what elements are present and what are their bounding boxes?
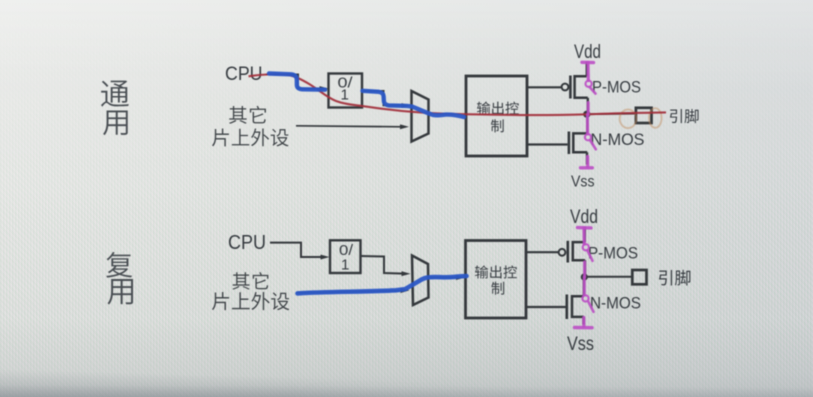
magenta P-MOS switch annotation (bottom): [583, 244, 589, 250]
P-MOS gate bubble (top): [562, 84, 569, 91]
magenta drain stroke (top): [587, 103, 590, 115]
svg-text:1: 1: [341, 87, 349, 104]
Vdd lead (bottom): [584, 227, 586, 243]
wire: box to N-MOS gate (bottom): [526, 306, 566, 308]
magenta Vss annotation stroke (top): [586, 157, 589, 167]
svg-text:Vss: Vss: [571, 174, 595, 191]
magenta Vdd annotation stroke (bottom): [578, 226, 592, 230]
P-MOS drain wire (top): [587, 98, 589, 114]
wire: node to N-MOS (top): [586, 114, 588, 133]
svg-text:N-MOS: N-MOS: [590, 294, 641, 313]
register bit box 0/1 (top): [329, 74, 363, 108]
svg-text:Vss: Vss: [567, 334, 594, 355]
wire: CPU to 0/1 box (top): [266, 75, 323, 89]
label 复用 (bottom-left row header): [106, 252, 132, 278]
wire: node to pin (top): [587, 113, 636, 116]
P-MOS gate bubble (bottom): [559, 249, 566, 256]
wire: 0/1 box to mux (top): [362, 91, 405, 105]
label 输出控 (top): [477, 102, 519, 115]
wire: box to P-MOS gate (top): [527, 86, 562, 88]
wire: node to N-MOS (bottom): [583, 277, 585, 296]
label 片上外设 (top): [212, 128, 288, 146]
P-MOS drain wire (bottom): [584, 260, 586, 276]
transistor P-MOS U3 (bottom): [566, 241, 569, 263]
Vdd lead (top): [586, 62, 588, 77]
svg-text:1: 1: [341, 257, 349, 274]
wire: CPU to 0/1 box (bottom): [270, 243, 324, 257]
output control box 输出控制 (top): [466, 76, 527, 156]
svg-text:Vdd: Vdd: [574, 42, 601, 63]
magenta N-MOS switch annotation (bottom): [582, 295, 588, 301]
label 片上外设 (bottom): [212, 292, 289, 310]
register bit box 0/1 (bottom): [330, 240, 361, 273]
magenta drain stroke (bottom): [583, 262, 586, 277]
label 通用 (top-left row header): [101, 81, 129, 107]
magenta Vdd annotation stroke (top): [582, 61, 594, 65]
wire: 片上外设 to mux (bottom): [297, 291, 403, 293]
label 引脚 (bottom): [659, 270, 690, 286]
pin square (bottom): [632, 270, 646, 284]
blue marker trace: mux segment (top): [363, 91, 465, 117]
blue marker trace: CPU wire segment (top): [269, 74, 325, 90]
transistor P-MOS U1 (top): [569, 76, 572, 99]
transistor N-MOS U4 (bottom): [565, 295, 568, 320]
svg-text:P-MOS: P-MOS: [592, 78, 641, 97]
label 其它 (top): [229, 106, 266, 124]
pin highlight circles (top): [620, 110, 637, 129]
mux trapezoid (top): [412, 91, 429, 142]
pin square (top): [636, 108, 652, 123]
wire: 片上外设 to mux (top): [296, 126, 403, 127]
wire: 0/1 box to mux (bottom): [361, 256, 405, 274]
wire: N-MOS to Vss (bottom): [582, 317, 584, 325]
wire: node to pin (bottom): [585, 276, 632, 278]
svg-text:CPU: CPU: [228, 232, 266, 254]
mux trapezoid (bottom): [412, 256, 429, 306]
wire: box to P-MOS gate (bottom): [526, 251, 559, 253]
red signal trace CPU to pin (top): [249, 74, 667, 115]
wire: mux to output control box (bottom): [429, 277, 461, 279]
transistor N-MOS U2 (top): [568, 132, 571, 155]
svg-text:Vdd: Vdd: [570, 207, 598, 228]
node: push-pull output junction (top): [583, 111, 590, 118]
magenta N-MOS switch annotation (top): [585, 134, 591, 140]
magenta node-to-NMOS stroke (top): [586, 115, 589, 134]
magenta P-MOS switch annotation (top): [586, 81, 592, 87]
node: push-pull output junction (bottom): [581, 273, 588, 280]
magenta Vss annotation stroke (bottom): [582, 318, 585, 327]
wire: N-MOS to Vss (top): [586, 152, 588, 164]
label 引脚 (top): [670, 109, 699, 123]
blue marker trace 片上外设 to box (bottom): [298, 276, 467, 293]
label 其它 (bottom): [232, 272, 268, 289]
wire: box to N-MOS gate (top): [527, 143, 568, 145]
label 输出控 (bottom): [475, 265, 517, 278]
svg-text:P-MOS: P-MOS: [588, 244, 638, 263]
magenta node-to-NMOS stroke (bottom): [583, 277, 586, 295]
svg-text:N-MOS: N-MOS: [591, 130, 645, 149]
output control box 输出控制 (bottom): [466, 241, 527, 319]
